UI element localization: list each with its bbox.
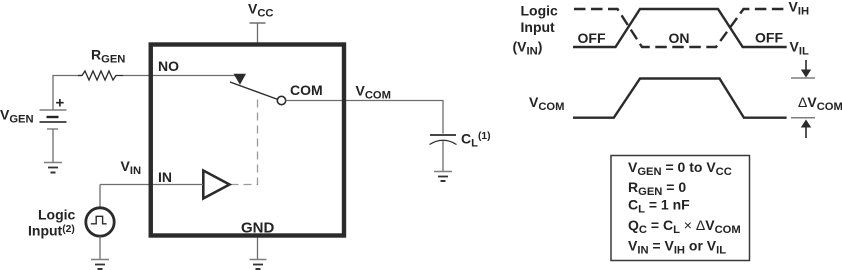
DUT box [151,45,344,236]
svg-text:VCOM: VCOM [529,94,564,113]
wire NO pin to switch [151,75,238,77]
VCOM waveform [573,79,787,118]
logic input waveform solid trace [573,9,787,47]
capacitor CL [430,135,457,145]
svg-text:ΔVCOM: ΔVCOM [798,94,842,113]
wire battery to ground [52,129,54,162]
switch S1 pole arrow [234,74,247,85]
tick line (ΔVCOM top) [791,77,815,79]
svg-text:OFF: OFF [755,30,783,46]
label Logic Input (VIN) (timing diagram) [513,3,559,58]
svg-text:VIN: VIN [121,158,142,177]
svg-text:ON: ON [669,30,690,46]
arrow up (ΔVCOM bottom) [801,120,811,139]
svg-text:RGEN: RGEN [91,47,125,66]
logic input waveform dashed trace [574,9,784,47]
svg-text:VIH: VIH [789,0,810,17]
svg-text:IN: IN [158,169,172,185]
svg-text:VCOM: VCOM [356,83,391,102]
svg-text:VGEN: VGEN [0,107,34,126]
driver buffer [203,171,229,199]
wire CL to ground [442,141,444,171]
arrow down (ΔVCOM top) [801,60,811,78]
wire pulse source to ground [99,236,101,259]
svg-text:VIN = VIH or VIL: VIN = VIH or VIL [628,238,726,257]
svg-text:QC = CL × ΔVCOM: QC = CL × ΔVCOM [628,217,741,236]
svg-text:VGEN = 0 to VCC: VGEN = 0 to VCC [628,159,732,178]
svg-text:NO: NO [158,58,179,74]
battery VGEN [40,95,67,130]
wire RGEN to NO pin [123,75,151,77]
svg-text:Input(2): Input(2) [28,223,75,239]
svg-text:Input: Input [521,19,556,35]
svg-text:CL = 1 nF: CL = 1 nF [628,197,690,216]
conditions box [611,156,750,261]
switch S1 blade [230,82,278,100]
svg-text:OFF: OFF [578,30,606,46]
ground (GND pin) [250,260,267,270]
svg-text:RGEN = 0: RGEN = 0 [628,179,686,198]
label Logic Input(2) [28,207,76,239]
svg-text:VIL: VIL [790,39,809,58]
wire VGEN battery top to resistor RGEN [53,76,82,111]
switch S1 COM contact [277,96,285,104]
svg-text:VCC: VCC [248,1,274,20]
dashed control line (driver to switch) [231,96,258,185]
svg-text:COM: COM [290,82,323,98]
svg-text:CL(1): CL(1) [461,131,491,150]
wire pulse source to IN wire [99,185,101,208]
svg-text:(VIN): (VIN) [513,39,543,58]
pulse source (logic input generator) [86,208,114,236]
ground (CL) [434,172,452,182]
svg-text:Logic: Logic [521,3,559,19]
svg-text:Logic: Logic [38,207,76,223]
svg-text:+: + [56,95,65,112]
wire COM to CL [286,101,443,134]
ground (VGEN) [44,163,62,173]
resistor RGEN [78,71,123,80]
power terminal VCC [250,23,266,44]
tick line (ΔVCOM bottom) [791,117,815,119]
wire logic input to IN pin to buffer [100,184,203,186]
ground (pulse source) [91,260,109,270]
wire GND pin stub [257,237,259,259]
